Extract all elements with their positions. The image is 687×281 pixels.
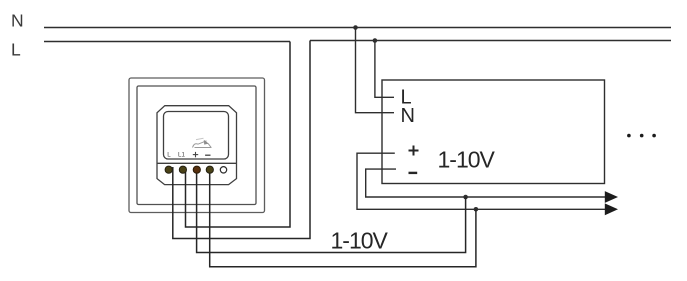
module terminal -: [206, 166, 213, 173]
module terminal L: [165, 166, 172, 173]
junction dot on - output line: [463, 195, 468, 200]
wire L mains line (left segment): [44, 41, 290, 43]
svg-text:1-10V: 1-10V: [438, 147, 496, 173]
module terminal L1: [179, 166, 186, 173]
svg-text:L: L: [167, 152, 171, 159]
module terminal label +: [193, 152, 198, 157]
wire module terminal L up to L bus: [173, 41, 310, 239]
wire N mains line: [44, 27, 671, 29]
dimmer module body: [157, 106, 237, 185]
module terminal +: [193, 166, 200, 173]
module terminal strip separator: [157, 162, 237, 164]
junction dot on N line: [353, 25, 358, 30]
arrowhead + output: [605, 203, 618, 215]
svg-text:N: N: [401, 105, 415, 127]
wire L bus to driver terminal L: [375, 41, 394, 98]
module terminal label -: [205, 154, 210, 156]
module icon: [193, 138, 212, 147]
wire + output down to module terminal -: [210, 167, 476, 267]
wire driver - output (upper arrow line): [366, 169, 605, 197]
svg-text:L1: L1: [178, 152, 185, 159]
svg-text:N: N: [11, 11, 24, 31]
driver box (1-10V ballast): [382, 80, 605, 184]
svg-text:L: L: [11, 40, 21, 60]
arrowhead - output: [605, 191, 618, 203]
wall plate inner frame: [137, 86, 256, 205]
wire L mains down to module terminal L1: [186, 42, 291, 228]
module indicator button: [220, 167, 226, 173]
driver terminal label +: [409, 146, 419, 156]
junction dot on L bus: [373, 38, 378, 43]
junction dot on + output line: [474, 207, 479, 212]
wire N line to driver terminal N: [356, 28, 395, 113]
svg-text:1-10V: 1-10V: [331, 227, 389, 253]
ellipsis dots (more drivers): [627, 134, 656, 138]
wire L bus (right segment): [310, 40, 671, 42]
driver terminal label -: [409, 172, 418, 174]
wire driver + output (lower arrow line): [357, 153, 605, 209]
wall plate outer frame: [129, 78, 265, 213]
wire - output down to module terminal +: [197, 167, 466, 253]
module display window: [164, 112, 229, 160]
